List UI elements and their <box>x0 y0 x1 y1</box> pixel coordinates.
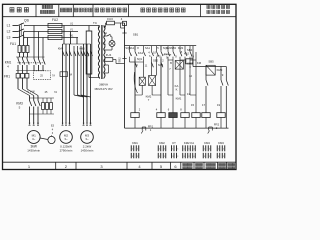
svg-text:SB2: SB2 <box>153 59 159 63</box>
svg-text:4: 4 <box>194 148 195 150</box>
svg-text:KM3: KM3 <box>218 141 224 145</box>
svg-text:FU3: FU3 <box>107 17 113 21</box>
svg-text:FU4: FU4 <box>106 53 112 57</box>
svg-text:KM1: KM1 <box>176 97 182 101</box>
svg-text:TC1: TC1 <box>88 52 90 57</box>
svg-text:FU1: FU1 <box>10 42 16 46</box>
svg-text:3: 3 <box>204 156 205 158</box>
svg-text:SQ2: SQ2 <box>125 46 131 50</box>
svg-text:KM1: KM1 <box>132 141 138 145</box>
svg-text:1: 1 <box>184 148 185 150</box>
svg-text:SA1: SA1 <box>145 46 150 50</box>
svg-text:3: 3 <box>159 156 160 158</box>
svg-text:1: 1 <box>218 148 219 150</box>
svg-text:SB3: SB3 <box>171 46 176 50</box>
svg-text:SQ1: SQ1 <box>137 57 143 61</box>
svg-text:B: B <box>170 61 172 65</box>
svg-text:FR1: FR1 <box>4 75 10 79</box>
svg-text:3: 3 <box>218 156 219 158</box>
svg-text:KM: KM <box>197 61 202 65</box>
svg-text:2: 2 <box>177 156 178 158</box>
svg-text:KM4: KM4 <box>204 141 210 145</box>
svg-text:3: 3 <box>132 156 133 158</box>
svg-text:5: 5 <box>189 148 190 150</box>
svg-text:1430r/min: 1430r/min <box>27 149 40 153</box>
svg-text:EL: EL <box>103 42 107 46</box>
svg-text:5: 5 <box>223 148 224 150</box>
svg-text:KM3: KM3 <box>217 68 223 72</box>
svg-text:5: 5 <box>177 148 178 150</box>
svg-text:380V/127V 36V: 380V/127V 36V <box>94 87 112 91</box>
svg-text:1: 1 <box>159 148 160 150</box>
svg-text:KA1: KA1 <box>138 51 144 55</box>
svg-text:5: 5 <box>164 148 165 150</box>
svg-text:17: 17 <box>202 103 206 107</box>
svg-text:2: 2 <box>137 156 138 158</box>
svg-text:2: 2 <box>223 156 224 158</box>
svg-text:KM2: KM2 <box>159 141 165 145</box>
svg-text:15: 15 <box>191 103 195 107</box>
svg-text:L1: L1 <box>7 24 11 28</box>
svg-text:SQ: SQ <box>157 54 161 58</box>
svg-text:L3: L3 <box>7 36 11 40</box>
svg-text:7A: 7A <box>52 75 55 78</box>
svg-text:19: 19 <box>217 103 221 107</box>
svg-text:K: K <box>176 88 178 92</box>
svg-text:SB1: SB1 <box>133 33 139 37</box>
svg-text:7A: 7A <box>54 91 57 94</box>
svg-text:12: 12 <box>189 74 193 78</box>
svg-text:KM5: KM5 <box>79 47 85 51</box>
svg-text:KT: KT <box>172 141 176 145</box>
svg-text:FU2: FU2 <box>52 18 58 22</box>
svg-text:2790r/min: 2790r/min <box>60 149 73 153</box>
svg-text:SA: SA <box>104 31 108 35</box>
svg-text:KM2 KA: KM2 KA <box>184 141 194 145</box>
svg-text:1: 1 <box>204 148 205 150</box>
svg-text:SB5: SB5 <box>208 60 214 64</box>
svg-text:3~: 3~ <box>64 137 68 141</box>
svg-text:KM2: KM2 <box>178 46 184 50</box>
svg-text:2: 2 <box>164 156 165 158</box>
svg-text:1: 1 <box>172 148 173 150</box>
svg-text:3: 3 <box>172 156 173 158</box>
svg-text:3: 3 <box>184 156 185 158</box>
svg-text:1: 1 <box>132 148 133 150</box>
svg-text:QS: QS <box>24 19 30 23</box>
svg-text:L2: L2 <box>7 30 11 34</box>
svg-text:KA2: KA2 <box>184 52 189 56</box>
svg-text:3~: 3~ <box>85 137 89 141</box>
svg-text:3~: 3~ <box>32 137 36 141</box>
svg-text:SB2: SB2 <box>118 57 122 63</box>
svg-text:2: 2 <box>209 156 210 158</box>
svg-text:KM4: KM4 <box>58 47 64 51</box>
svg-text:1430r/min: 1430r/min <box>81 149 94 153</box>
svg-text:2: 2 <box>189 156 190 158</box>
svg-text:380VA: 380VA <box>99 83 109 87</box>
svg-text:5: 5 <box>137 148 138 150</box>
svg-text:5: 5 <box>209 148 210 150</box>
svg-text:6: 6 <box>194 156 195 158</box>
